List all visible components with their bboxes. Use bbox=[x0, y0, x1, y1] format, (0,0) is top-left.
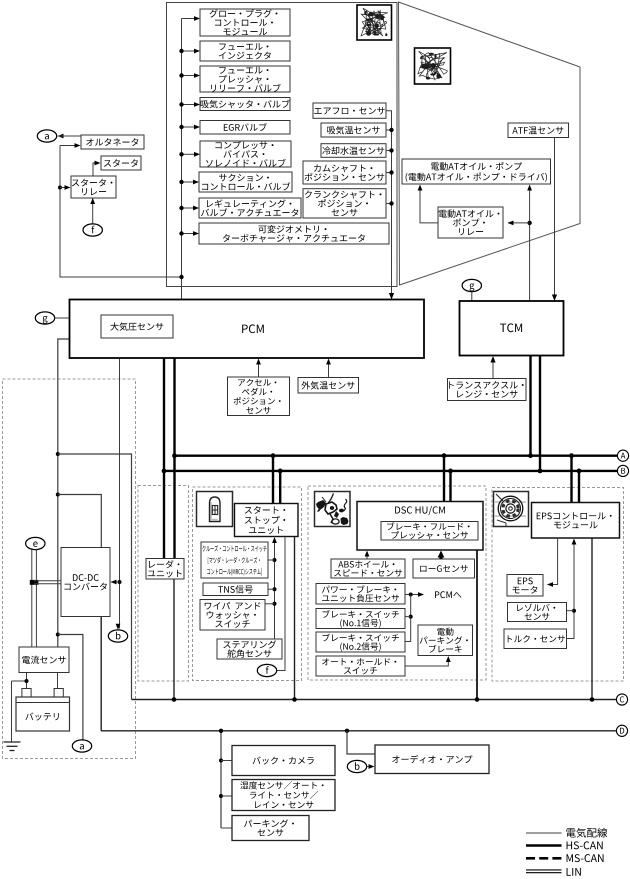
arrowhead into node b top bbox=[116, 624, 121, 630]
wire junction to DC-DC right edge bbox=[111, 581, 120, 583]
box EPS control module EPSコントロール・モジュール bbox=[532, 503, 620, 539]
node f ellipse (top) bbox=[83, 224, 102, 236]
box starter スタータ bbox=[101, 156, 141, 170]
box DSC HU/CM bbox=[357, 502, 483, 551]
wire riser to relay right edge bbox=[508, 222, 530, 224]
wire coolant to collector bbox=[386, 148, 394, 152]
junction dot vacuum branch bbox=[409, 593, 413, 597]
arrowhead PCM-he bbox=[418, 592, 424, 597]
wire PCM to bus A and radar unit bbox=[173, 358, 175, 559]
junction dot cruise branch bbox=[268, 558, 277, 562]
junction dot TCM at bus B bbox=[538, 469, 543, 474]
icon steering wheel image box bbox=[494, 492, 529, 527]
box starter relay スタータ・リレー bbox=[71, 176, 116, 198]
node b ellipse (audio) bbox=[347, 760, 366, 772]
junction dot on alternator riser bbox=[58, 186, 62, 190]
wire TCM to bus B bbox=[539, 356, 541, 471]
arrowhead into relay right edge bbox=[508, 221, 514, 226]
node a ellipse (top) bbox=[37, 130, 56, 142]
legend label MS-CAN bbox=[567, 854, 604, 862]
junction dot wiper branch bbox=[265, 602, 277, 606]
EPS group dashed box bbox=[492, 488, 624, 682]
box ATF temp sensor ATF温センサ bbox=[508, 123, 569, 138]
box glow plug control module グロー・プラグ・コントロール・モジュール bbox=[200, 9, 290, 36]
wire current sensor right stub to battery bbox=[57, 673, 59, 689]
box electric AT oil pump 電動ATオイル・ポンプ bbox=[402, 159, 551, 184]
wire bus B to start-stop unit bbox=[279, 471, 281, 504]
HS-CAN bus A bbox=[175, 455, 618, 457]
box regulating valve actuator レギュレーティング・バルブ・アクチュエータ bbox=[199, 198, 301, 218]
wire TCM to bus A bbox=[529, 356, 531, 456]
box resolver sensor レゾルバ・センサ bbox=[508, 603, 567, 622]
box fuel pressure relief valve フューエル・プレッシャ・リリーフ・バルブ bbox=[200, 66, 290, 92]
wire ABS sensor to DSC bbox=[366, 555, 368, 560]
box DC-DC converter DC-DCコンバータ bbox=[61, 548, 110, 617]
box transaxle range sensor トランスアクスル・レンジ・センサ bbox=[448, 379, 527, 401]
arrowhead into PCM top bbox=[389, 293, 394, 300]
wire feeder branch + variable bbox=[179, 231, 199, 236]
arrowhead into EPS motor right edge bbox=[547, 582, 553, 587]
junction dot TCM at bus A bbox=[528, 453, 533, 458]
box back camera バック・カメラ bbox=[232, 746, 335, 776]
wire current sensor left stub to ground bbox=[12, 673, 27, 742]
box parking sensor パーキング・センサ bbox=[232, 816, 309, 841]
junction dot PCM line at bus B bbox=[162, 469, 167, 474]
arrowhead ABS into DSC bottom bbox=[365, 551, 370, 557]
wire PCM to bus B and radar unit bbox=[163, 358, 165, 559]
junction dot at bus A x571 bbox=[569, 453, 574, 458]
wire auto hold to parking brake bbox=[405, 660, 448, 666]
junction dot at bus B x450 bbox=[448, 469, 453, 474]
arrowhead into starter relay bottom bbox=[90, 198, 95, 204]
radar group dashed box bbox=[138, 486, 189, 682]
legend HS-CAN line bbox=[526, 844, 562, 847]
legend LIN double line bbox=[526, 870, 562, 873]
box variable geometry turbocharger actuator 可変ジオメトリ・ターボチャージャ・アクチュエータ bbox=[199, 223, 389, 244]
engine compartment outline box bbox=[167, 3, 398, 287]
junction dot trunk y494.5 bbox=[56, 493, 60, 497]
arrowhead into parking brake bottom bbox=[446, 656, 451, 662]
legend label LIN bbox=[567, 868, 581, 876]
wire starter relay to starter bbox=[93, 163, 97, 176]
box power brake unit vacuum sensor パワー・ブレーキ・ユニット負圧センサ bbox=[316, 584, 405, 605]
wire lowG sensor to DSC bbox=[439, 554, 442, 559]
wire bus B to DSC HU/CM bbox=[449, 471, 451, 502]
wire feeder branch + glow bbox=[182, 16, 201, 21]
box crankshaft position sensor クランクシャフト・ポジション・センサ bbox=[303, 189, 386, 218]
box alternator オルタネータ bbox=[81, 135, 144, 149]
wire node g to TCM top bbox=[471, 292, 473, 301]
wire bus A to start-stop unit bbox=[272, 456, 274, 504]
arrowhead into alternator bbox=[75, 143, 81, 148]
legend MS-CAN line bbox=[526, 857, 562, 860]
junction dot at bus B x579 bbox=[577, 469, 582, 474]
icon brake image box bbox=[315, 492, 351, 527]
box low-G sensor ローGセンサ bbox=[413, 559, 475, 578]
junction dot bus D x221 bbox=[219, 729, 223, 733]
box airflow sensor エアフロ・センサ bbox=[313, 103, 386, 118]
brake switch collector wire bbox=[405, 595, 411, 642]
engine actuator feeder wire bbox=[181, 19, 183, 301]
junction dot at bus A x273 bbox=[271, 453, 276, 458]
junction dot radar at bus C bbox=[172, 697, 177, 702]
box electric AT oil pump relay 電動ATオイル・ポンプ・リレー bbox=[438, 207, 503, 238]
node e ellipse bbox=[26, 537, 45, 549]
wire bus B to EPS module bbox=[578, 471, 580, 503]
junction dot resolver branch bbox=[567, 609, 577, 613]
wire trunk to node a bbox=[58, 635, 83, 741]
box EPS motor EPSモータ bbox=[507, 575, 543, 597]
label PCMへ bbox=[435, 591, 461, 598]
DSC group dashed box bbox=[308, 486, 486, 680]
arrowhead collector into EPS module bottom bbox=[572, 539, 577, 545]
node D circle bbox=[616, 725, 627, 736]
junction dot on riser at relay branch bbox=[527, 221, 531, 225]
arrowhead node b into audio amp bbox=[369, 764, 375, 769]
wire to parking sensor bbox=[221, 827, 232, 829]
wire feeder branch + intake bbox=[179, 102, 200, 107]
wire feeder branch + suction bbox=[179, 180, 199, 185]
arrowhead into pump bottom right bbox=[527, 185, 532, 191]
EPS sensor collector wire bbox=[567, 543, 575, 639]
junction dot DSC at bus C bbox=[475, 697, 480, 702]
LIN junction square at DC-DC branch bbox=[30, 580, 39, 585]
junction dot back camera branch bbox=[219, 759, 232, 763]
icon engine image box bbox=[357, 5, 392, 40]
wire feeder branch + compressor bbox=[179, 152, 200, 157]
wire EPS module to bus C bbox=[591, 538, 593, 700]
wire pump/TCM riser bbox=[529, 189, 531, 301]
icon transmission image box bbox=[415, 48, 451, 84]
node a ellipse (bottom) bbox=[72, 740, 91, 752]
node f ellipse (steering) bbox=[257, 664, 276, 676]
box TNS signal TNS信号 bbox=[203, 583, 268, 596]
wire EPS module to EPS motor bbox=[548, 538, 558, 585]
arrowhead transaxle into TCM bottom bbox=[490, 356, 495, 363]
bus C bbox=[132, 699, 617, 701]
wire PCM left exit to battery trunk bbox=[58, 339, 70, 647]
wire node g to PCM left edge bbox=[55, 317, 70, 319]
wire camshaft to collector bbox=[386, 170, 394, 174]
wire radar unit to bus C bbox=[173, 579, 175, 700]
box intake air temp sensor 吸気温センサ bbox=[321, 123, 386, 137]
wire node f to start-stop unit bbox=[277, 537, 285, 671]
LIN double wire from node e down to current sensor bbox=[32, 550, 37, 648]
arrowhead into pump bottom left bbox=[418, 185, 423, 191]
wire relay to pump (left) bbox=[420, 189, 438, 223]
box TCM bbox=[460, 301, 564, 356]
bus D drop to rear devices bbox=[220, 731, 222, 828]
node B circle bbox=[617, 465, 628, 476]
junction dot DC-DC right wire bbox=[118, 580, 122, 584]
junction dot trunk y634.5 bbox=[56, 633, 60, 637]
wire crankshaft to collector bbox=[386, 201, 394, 205]
box camshaft position sensor カムシャフト・ポジション・センサ bbox=[303, 161, 386, 184]
box electric parking brake 電動パーキング・ブレーキ bbox=[418, 625, 473, 656]
icon keyless fob image box bbox=[197, 492, 233, 527]
box brake switch No.1 ブレーキ・スイッチ(No.1信号) bbox=[316, 609, 405, 629]
box auto hold switch オート・ホールド・スイッチ bbox=[316, 656, 405, 676]
wire DC-DC converter to bus D bbox=[100, 617, 102, 731]
wire bus D to audio amp bbox=[347, 731, 375, 754]
legend label 電気配線 bbox=[566, 828, 607, 838]
wire riser to starter relay bbox=[60, 187, 67, 189]
junction dot humidity sensor branch bbox=[219, 794, 232, 798]
box cruise control switch クルーズ・コントロール・スイッチ bbox=[201, 542, 268, 578]
legend electrical wiring line bbox=[526, 832, 562, 834]
box coolant temp sensor 冷却水温センサ bbox=[321, 144, 386, 158]
battery group dashed box bbox=[3, 379, 136, 759]
sensor collector wire to PCM bbox=[386, 111, 392, 295]
box torque sensor トルク・センサ bbox=[504, 629, 567, 649]
box ABS wheel speed sensor ABSホイール・スピード・センサ bbox=[331, 559, 405, 578]
start-stop group dashed box bbox=[193, 487, 302, 681]
wire DSC HU/CM to bus C bbox=[476, 550, 478, 700]
node b ellipse (left) bbox=[108, 630, 127, 642]
arrowhead into DC-DC right edge bbox=[111, 580, 117, 585]
HS-CAN bus B bbox=[164, 470, 617, 472]
wire trunk to bus C via right edge bbox=[58, 454, 132, 700]
wire alternator to node a bbox=[58, 135, 82, 137]
junction dot at bus B x280 bbox=[278, 469, 283, 474]
box audio amp オーディオ・アンプ bbox=[375, 745, 489, 774]
box wiper and washer switch ワイパ アンド ウォッシャ・スイッチ bbox=[200, 600, 265, 631]
box radar unit レーダ・ユニット bbox=[146, 559, 184, 580]
junction dot current sensor left bbox=[25, 679, 29, 683]
box steering angle sensor ステアリング舵角センサ bbox=[217, 639, 282, 659]
wire ATF sensor to TCM bbox=[554, 138, 556, 297]
wire bus A to EPS module bbox=[570, 456, 572, 503]
junction dot PCM line at bus A bbox=[172, 453, 177, 458]
box intake shutter valve 吸気シャッタ・バルブ bbox=[200, 98, 290, 111]
box EGR valve EGRバルブ bbox=[200, 121, 290, 135]
junction dot TNS branch bbox=[268, 587, 277, 591]
box current sensor 電流センサ bbox=[19, 647, 69, 673]
wire node b arrow stub bbox=[367, 766, 369, 768]
wire bus A to DSC HU/CM bbox=[443, 456, 445, 502]
legend label HS-CAN bbox=[567, 841, 603, 849]
node g ellipse (PCM) bbox=[35, 312, 54, 324]
wire feeder branch + fuel bbox=[179, 73, 200, 78]
box humidity/auto-light/rain sensor 湿度センサ bbox=[232, 780, 335, 811]
start-stop input collector wire bbox=[274, 542, 276, 640]
box brake fluid pressure sensor ブレーキ・フルード・プレッシャ・センサ bbox=[381, 522, 478, 541]
arrowhead collector into start-stop bottom bbox=[272, 537, 277, 543]
junction dot feeder at alternator branch bbox=[179, 275, 183, 279]
box start stop unit スタート・ストップ・ユニット bbox=[235, 504, 299, 537]
wire feeder branch to alternator bbox=[60, 146, 182, 278]
wire feeder branch + fuel bbox=[179, 49, 200, 54]
box suction control valve サクション・コントロール・バルブ bbox=[199, 172, 292, 192]
arrowhead into node a bbox=[58, 134, 64, 139]
junction dot bus D x347 bbox=[345, 729, 349, 733]
junction dot brake switch No.1 bbox=[405, 615, 413, 619]
wire trunk to DC-DC converter top bbox=[58, 495, 102, 548]
wire vacuum sensor to PCM-he arrow bbox=[405, 594, 420, 596]
bus D bbox=[101, 730, 617, 732]
box fuel injector フューエル・インジェクタ bbox=[200, 41, 290, 61]
wire node f to starter relay bbox=[92, 198, 94, 224]
ground symbol bbox=[4, 742, 21, 751]
box PCM bbox=[70, 300, 425, 359]
arrowhead lowG into DSC bottom bbox=[438, 551, 445, 558]
node C circle bbox=[616, 694, 627, 705]
arrowhead into starter bbox=[95, 161, 101, 166]
wire intake to collector bbox=[386, 128, 394, 132]
wire ambient sensor to PCM bbox=[328, 363, 330, 378]
wire feeder branch + regulating bbox=[179, 206, 199, 211]
wire start-stop unit to bus C bbox=[294, 537, 296, 700]
junction dot at bus A x444 bbox=[442, 453, 447, 458]
arrowhead ATF wire into TCM top bbox=[552, 295, 557, 302]
arrowhead ambient into PCM bottom bbox=[326, 359, 331, 365]
junction dot EPS at bus C bbox=[590, 697, 595, 702]
battery icon + box バッテリ bbox=[16, 689, 70, 732]
junction dot trunk y454 bbox=[56, 452, 60, 456]
node g ellipse (TCM) bbox=[462, 279, 481, 291]
box compressor bypass solenoid valve コンプレッサ・バイパス・ソレノイド・バルブ bbox=[200, 141, 291, 167]
transmission area polygon outline bbox=[399, 2, 581, 285]
box accelerator pedal position sensor アクセル・ペダル・ポジション・センサ bbox=[228, 377, 290, 416]
junction dot start-stop at bus C bbox=[292, 697, 297, 702]
wire transaxle sensor to TCM bbox=[492, 360, 494, 379]
box brake switch No.2 ブレーキ・スイッチ(No.2信号) bbox=[316, 632, 405, 652]
arrowhead accel into PCM bottom bbox=[256, 359, 261, 365]
node A circle bbox=[617, 450, 628, 461]
box ambient temp sensor 外気温センサ bbox=[298, 378, 359, 394]
box barometric sensor 大気圧センサ bbox=[101, 315, 173, 338]
wire accel sensor to PCM bbox=[258, 363, 260, 378]
LIN double wire into DC-DC left edge bbox=[34, 581, 61, 584]
arrowhead into starter relay bbox=[65, 185, 71, 190]
wire feeder branch + EGR bbox=[179, 125, 200, 130]
wire PCM to DC-DC converter (thin) bbox=[119, 358, 121, 629]
